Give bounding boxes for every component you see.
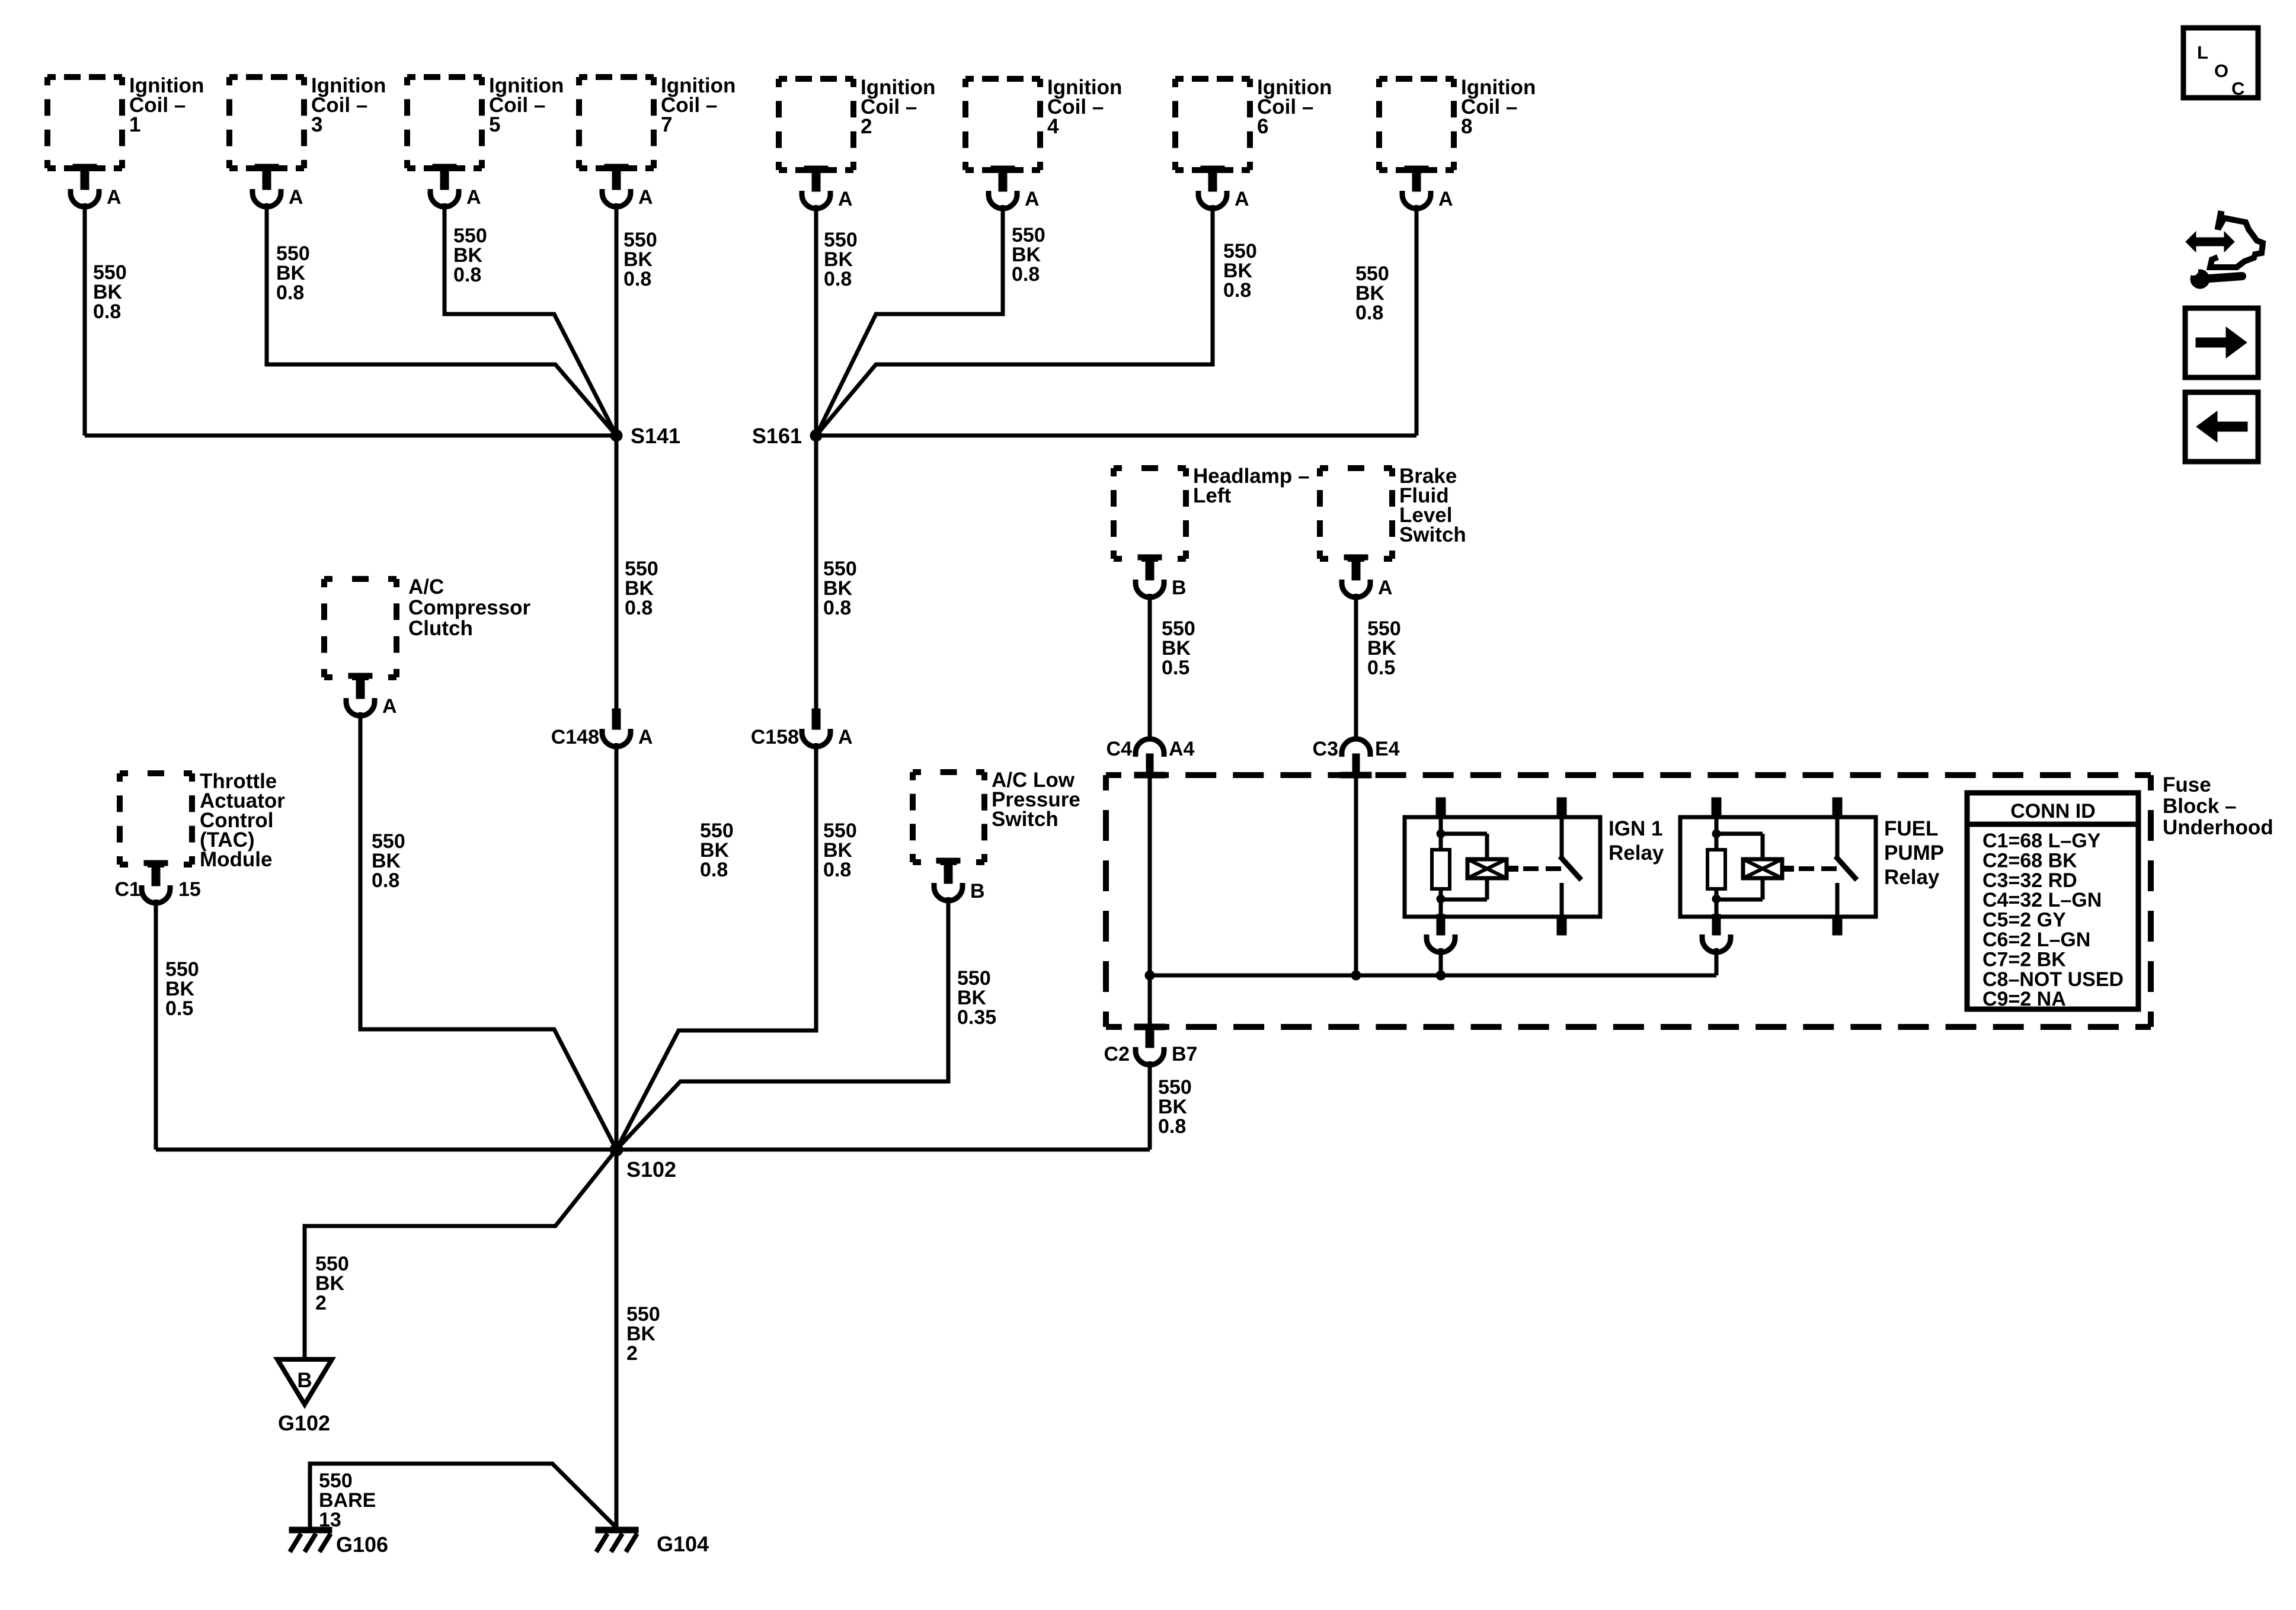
svg-text:0.8: 0.8 xyxy=(700,859,728,881)
svg-text:Clutch: Clutch xyxy=(408,617,473,640)
svg-text:A4: A4 xyxy=(1169,738,1195,760)
svg-text:Compressor: Compressor xyxy=(408,596,531,619)
svg-text:C1=68 L–GY: C1=68 L–GY xyxy=(1982,830,2101,852)
svg-text:O: O xyxy=(2214,60,2228,81)
svg-text:Relay: Relay xyxy=(1884,866,1940,889)
svg-text:0.8: 0.8 xyxy=(625,597,653,619)
svg-text:Underhood: Underhood xyxy=(2163,816,2273,839)
svg-text:0.8: 0.8 xyxy=(1223,279,1251,302)
svg-text:0.8: 0.8 xyxy=(93,300,121,323)
svg-text:0.35: 0.35 xyxy=(957,1006,996,1029)
svg-text:S161: S161 xyxy=(752,424,802,448)
svg-text:4: 4 xyxy=(1047,115,1059,138)
svg-text:Relay: Relay xyxy=(1609,841,1664,865)
svg-text:0.8: 0.8 xyxy=(1012,263,1040,286)
svg-text:A: A xyxy=(638,186,653,209)
svg-text:C3: C3 xyxy=(1313,738,1338,760)
svg-text:C5=2 GY: C5=2 GY xyxy=(1982,909,2066,932)
svg-text:0.8: 0.8 xyxy=(823,597,851,619)
svg-text:Block –: Block – xyxy=(2163,795,2237,818)
svg-text:B7: B7 xyxy=(1172,1043,1197,1065)
svg-text:C2: C2 xyxy=(1104,1043,1130,1065)
svg-text:A: A xyxy=(838,188,853,210)
svg-text:C9=2 NA: C9=2 NA xyxy=(1982,988,2066,1010)
svg-text:C4=32 L–GN: C4=32 L–GN xyxy=(1982,889,2102,911)
svg-text:7: 7 xyxy=(661,113,672,136)
svg-text:S102: S102 xyxy=(626,1157,676,1182)
svg-text:C4: C4 xyxy=(1107,738,1133,760)
svg-text:C7=2 BK: C7=2 BK xyxy=(1982,948,2066,971)
svg-text:C: C xyxy=(2231,78,2244,99)
svg-text:2: 2 xyxy=(861,115,872,138)
svg-text:PUMP: PUMP xyxy=(1884,841,1944,865)
svg-text:B: B xyxy=(970,880,985,902)
svg-text:B: B xyxy=(1172,577,1187,599)
svg-text:A: A xyxy=(638,726,653,748)
svg-text:A: A xyxy=(1438,188,1453,210)
svg-text:C1: C1 xyxy=(115,878,140,901)
svg-text:0.8: 0.8 xyxy=(1355,302,1383,324)
svg-text:A: A xyxy=(1025,188,1040,210)
svg-text:B: B xyxy=(297,1369,312,1392)
svg-text:0.8: 0.8 xyxy=(1158,1115,1186,1138)
svg-text:S141: S141 xyxy=(631,424,680,448)
svg-text:0.8: 0.8 xyxy=(623,268,651,290)
svg-text:C3=32 RD: C3=32 RD xyxy=(1982,869,2077,892)
svg-text:A: A xyxy=(838,726,853,748)
svg-text:CONN ID: CONN ID xyxy=(2010,800,2096,822)
svg-text:0.5: 0.5 xyxy=(1367,657,1395,679)
svg-text:15: 15 xyxy=(178,878,201,901)
svg-text:0.8: 0.8 xyxy=(276,281,304,304)
svg-text:A: A xyxy=(382,695,397,718)
svg-text:C2=68 BK: C2=68 BK xyxy=(1982,849,2077,872)
svg-text:A: A xyxy=(289,186,303,209)
svg-text:5: 5 xyxy=(489,113,500,136)
svg-text:C8–NOT USED: C8–NOT USED xyxy=(1982,968,2124,991)
svg-text:A: A xyxy=(466,186,481,209)
svg-text:0.8: 0.8 xyxy=(372,869,399,892)
svg-text:0.5: 0.5 xyxy=(165,997,193,1020)
svg-text:8: 8 xyxy=(1461,115,1472,138)
svg-text:0.8: 0.8 xyxy=(823,859,851,881)
svg-text:Left: Left xyxy=(1193,484,1232,507)
svg-text:Module: Module xyxy=(200,848,272,871)
svg-text:C6=2 L–GN: C6=2 L–GN xyxy=(1982,929,2090,951)
svg-text:C148: C148 xyxy=(551,726,599,748)
svg-text:2: 2 xyxy=(626,1342,638,1365)
svg-text:L: L xyxy=(2197,42,2208,63)
svg-text:Switch: Switch xyxy=(1399,523,1466,546)
svg-text:0.8: 0.8 xyxy=(824,268,852,290)
svg-text:G104: G104 xyxy=(657,1532,709,1556)
svg-text:6: 6 xyxy=(1257,115,1268,138)
svg-text:A: A xyxy=(107,186,121,209)
svg-text:C158: C158 xyxy=(751,726,799,748)
svg-text:FUEL: FUEL xyxy=(1884,817,1938,840)
svg-text:A: A xyxy=(1378,577,1393,599)
svg-text:13: 13 xyxy=(319,1509,341,1531)
svg-text:G102: G102 xyxy=(278,1411,330,1435)
svg-text:0.8: 0.8 xyxy=(453,264,481,286)
svg-text:A/C: A/C xyxy=(408,575,444,598)
svg-text:3: 3 xyxy=(311,113,322,136)
svg-text:Fuse: Fuse xyxy=(2163,773,2211,796)
svg-text:1: 1 xyxy=(129,113,140,136)
svg-text:0.5: 0.5 xyxy=(1162,657,1189,679)
svg-text:Switch: Switch xyxy=(992,808,1059,831)
svg-text:A: A xyxy=(1235,188,1249,210)
svg-text:IGN 1: IGN 1 xyxy=(1609,817,1662,840)
svg-text:2: 2 xyxy=(315,1292,327,1314)
svg-text:E4: E4 xyxy=(1375,738,1400,760)
svg-text:G106: G106 xyxy=(336,1532,388,1557)
